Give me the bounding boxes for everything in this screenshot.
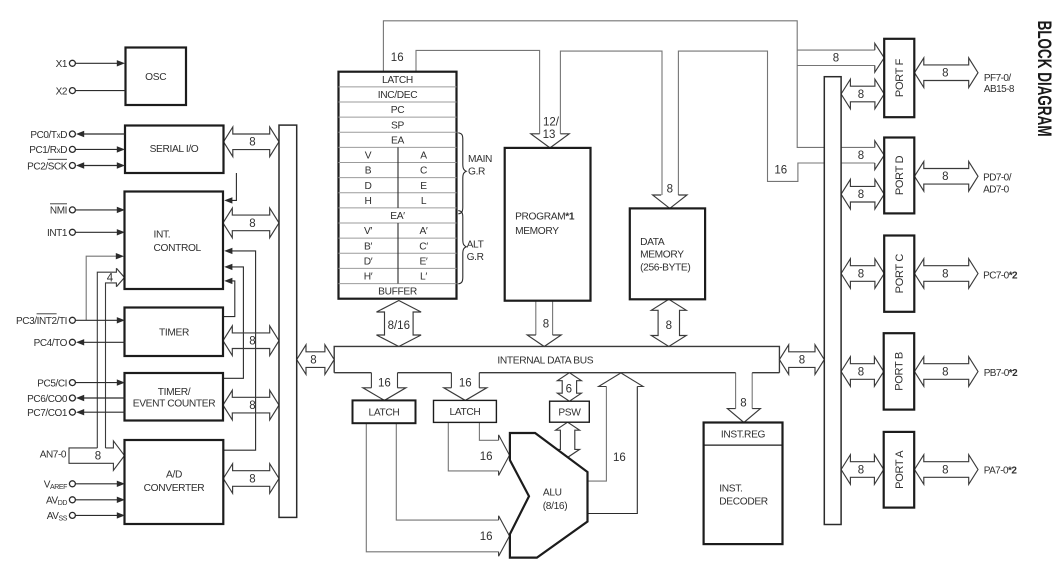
svg-text:EA: EA bbox=[391, 135, 404, 146]
svg-text:8: 8 bbox=[858, 89, 864, 101]
svg-text:INC/DEC: INC/DEC bbox=[378, 90, 417, 101]
svg-text:V′: V′ bbox=[364, 226, 372, 237]
svg-text:8: 8 bbox=[858, 464, 864, 476]
block DATA MEMORY bbox=[630, 208, 705, 299]
svg-text:OSC: OSC bbox=[145, 72, 166, 83]
block LATCH1 bbox=[353, 400, 416, 423]
arrow 16 internal data bus to LATCH1 bbox=[370, 373, 372, 388]
svg-text:PORT A: PORT A bbox=[894, 450, 906, 489]
block PORT A bbox=[884, 432, 915, 508]
pin arrow 8 PORT F to PF7-0/AB15-8 bbox=[915, 58, 979, 88]
bus arrow 6 internal data bus to PSW bbox=[557, 373, 581, 402]
bus arrow 8 right bar to PORT C bbox=[841, 259, 884, 289]
svg-text:PB7-0*2: PB7-0*2 bbox=[984, 368, 1018, 379]
svg-text:PROGRAM*1: PROGRAM*1 bbox=[515, 211, 575, 222]
block INTERNAL DATA BUS bbox=[334, 347, 779, 373]
svg-text:8: 8 bbox=[942, 268, 948, 280]
svg-text:PC3/INT2/TI: PC3/INT2/TI bbox=[16, 316, 67, 327]
svg-text:8: 8 bbox=[858, 268, 864, 280]
svg-text:PC6/CO0: PC6/CO0 bbox=[27, 394, 68, 405]
svg-text:8: 8 bbox=[249, 473, 255, 485]
svg-text:16: 16 bbox=[391, 52, 404, 64]
bus arrow 8/16 register file to internal data bus bbox=[377, 301, 422, 347]
svg-text:X2: X2 bbox=[56, 86, 68, 97]
svg-text:X1: X1 bbox=[56, 59, 68, 70]
svg-text:(256-BYTE): (256-BYTE) bbox=[640, 262, 690, 273]
bus arrow PSW to ALU bbox=[556, 422, 580, 457]
block LATCH2 bbox=[434, 400, 497, 422]
svg-text:E: E bbox=[420, 181, 427, 192]
overline SCK bbox=[48, 158, 67, 160]
svg-text:PC7/CO1: PC7/CO1 bbox=[27, 408, 68, 419]
register file alternate register divider bbox=[397, 223, 399, 284]
arrow head 8 into PORT F bbox=[875, 43, 884, 72]
svg-text:PORT B: PORT B bbox=[894, 352, 906, 391]
svg-text:8: 8 bbox=[310, 355, 316, 367]
svg-text:16: 16 bbox=[378, 377, 391, 389]
svg-text:C: C bbox=[420, 166, 427, 177]
svg-text:EVENT COUNTER: EVENT COUNTER bbox=[133, 399, 215, 410]
svg-text:PC7-0*2: PC7-0*2 bbox=[983, 270, 1018, 281]
svg-text:8: 8 bbox=[858, 366, 864, 378]
svg-text:DECODER: DECODER bbox=[719, 496, 768, 507]
svg-text:PSW: PSW bbox=[558, 407, 581, 418]
pin PC6/CO0 bbox=[69, 395, 75, 401]
pin PC7/CO1 bbox=[69, 409, 75, 415]
wire ALU upper output to internal data bus bbox=[588, 387, 607, 482]
arrow 8 program memory to internal data bus bbox=[535, 301, 537, 335]
svg-text:6: 6 bbox=[566, 384, 572, 396]
svg-text:CONTROL: CONTROL bbox=[154, 243, 202, 254]
svg-text:8: 8 bbox=[942, 171, 948, 183]
block AD CONVERTER bbox=[125, 440, 224, 524]
bus arrow 8 TIMER EVENT COUNTER to internal bus bar bbox=[223, 390, 279, 420]
arrow 8 AN7-0 into AD CONVERTER bbox=[69, 441, 125, 470]
svg-text:INT.: INT. bbox=[154, 230, 171, 241]
svg-text:8: 8 bbox=[942, 366, 948, 378]
wire 16-bit address from register file to ports bbox=[383, 21, 874, 148]
port bus bar right bbox=[824, 77, 841, 525]
svg-text:D: D bbox=[364, 181, 371, 192]
overline NMI bbox=[50, 203, 67, 205]
block INST REG and INST DECODER bbox=[704, 423, 783, 545]
wire LATCH2 to ALU upper input top bbox=[479, 422, 498, 440]
svg-text:MEMORY: MEMORY bbox=[515, 226, 559, 237]
pin arrow 8 PORT A to PA7-0 bbox=[915, 455, 979, 485]
svg-text:16: 16 bbox=[774, 164, 787, 176]
wire LATCH1 to ALU lower input top bbox=[396, 423, 498, 520]
arrow 16 LATCH1 into ALU bbox=[499, 516, 510, 557]
svg-text:8: 8 bbox=[799, 355, 805, 367]
svg-text:8: 8 bbox=[667, 183, 673, 195]
svg-text:MEMORY: MEMORY bbox=[640, 250, 684, 261]
svg-text:8: 8 bbox=[942, 464, 948, 476]
pin VAREF bbox=[69, 481, 75, 487]
arrow 12/13 into program memory bbox=[531, 134, 569, 148]
arrow 8 internal data bus to INST REG bbox=[735, 373, 737, 409]
svg-text:LATCH: LATCH bbox=[382, 75, 413, 86]
svg-text:MAIN: MAIN bbox=[468, 154, 492, 165]
svg-text:D′: D′ bbox=[364, 256, 373, 267]
pin PC5/CI bbox=[69, 380, 75, 386]
svg-text:13: 13 bbox=[543, 129, 556, 141]
bus arrow 8 TIMER to internal bus bar bbox=[223, 326, 279, 356]
svg-text:A: A bbox=[420, 151, 427, 162]
svg-text:8: 8 bbox=[740, 397, 746, 409]
block register file bbox=[339, 72, 457, 299]
svg-text:8/16: 8/16 bbox=[388, 320, 410, 332]
svg-text:8: 8 bbox=[858, 150, 864, 162]
bus arrow 8 SERIAL IO to internal bus bar bbox=[224, 127, 280, 157]
arrow 16 LATCH2 into ALU bbox=[499, 435, 510, 476]
svg-text:B: B bbox=[365, 166, 372, 177]
svg-text:PC1/RxD: PC1/RxD bbox=[29, 145, 67, 156]
block TIMER EVENT COUNTER bbox=[125, 373, 224, 421]
block PORT F bbox=[884, 39, 914, 117]
svg-text:L: L bbox=[421, 196, 427, 207]
svg-text:PC: PC bbox=[391, 105, 404, 116]
svg-text:AD7-0: AD7-0 bbox=[983, 185, 1010, 196]
pin X1 bbox=[69, 60, 75, 66]
wire TIMER interrupt to INT CONTROL bbox=[223, 281, 235, 317]
arrow 16 internal data bus to LATCH2 bbox=[450, 373, 452, 388]
bus arrow 8 INT CONTROL to internal bus bar bbox=[223, 208, 279, 238]
svg-text:A′: A′ bbox=[419, 226, 427, 237]
brace ALT G.R bbox=[458, 211, 466, 284]
wire AD converter interrupt to INT CONTROL bbox=[223, 251, 255, 450]
bus arrow 8 right bar to PORT F bbox=[841, 79, 884, 109]
svg-text:A/D: A/D bbox=[166, 470, 182, 481]
brace MAIN G.R bbox=[458, 133, 466, 214]
svg-text:8: 8 bbox=[249, 218, 255, 230]
svg-text:8: 8 bbox=[543, 318, 549, 330]
svg-text:H′: H′ bbox=[364, 272, 373, 283]
svg-text:PC4/TO: PC4/TO bbox=[34, 338, 68, 349]
pin PC4/TO bbox=[69, 339, 75, 345]
svg-text:PORT F: PORT F bbox=[894, 58, 906, 97]
svg-text:16: 16 bbox=[480, 531, 493, 543]
svg-text:PF7-0/: PF7-0/ bbox=[984, 73, 1011, 84]
block INT CONTROL bbox=[125, 192, 224, 290]
svg-text:EA′: EA′ bbox=[390, 211, 405, 222]
svg-text:LATCH: LATCH bbox=[369, 407, 400, 418]
pin INT1 bbox=[69, 229, 75, 235]
wire 12/13 right shaft to data memory arrow bbox=[560, 51, 662, 195]
wire SERIAL IO interrupt to INT CONTROL bbox=[229, 173, 236, 200]
svg-text:G.R: G.R bbox=[467, 252, 484, 263]
svg-text:(8/16): (8/16) bbox=[543, 501, 568, 512]
svg-text:TIMER/: TIMER/ bbox=[158, 387, 191, 398]
arrow 8 into data memory bbox=[653, 195, 687, 208]
svg-text:ALT: ALT bbox=[467, 240, 484, 251]
svg-text:PC2/SCK: PC2/SCK bbox=[27, 161, 68, 172]
svg-text:PD7-0/: PD7-0/ bbox=[983, 173, 1012, 184]
block PORT C bbox=[884, 236, 914, 312]
block TIMER bbox=[125, 308, 224, 357]
svg-text:TIMER: TIMER bbox=[159, 328, 189, 339]
bus arrow 8 right bar to PORT A bbox=[841, 455, 884, 485]
svg-text:E′: E′ bbox=[419, 256, 427, 267]
svg-text:8: 8 bbox=[95, 451, 101, 463]
svg-text:G.R: G.R bbox=[468, 167, 485, 178]
svg-text:INST.REG: INST.REG bbox=[721, 430, 766, 441]
svg-text:INT1: INT1 bbox=[47, 228, 68, 239]
svg-text:8: 8 bbox=[858, 189, 864, 201]
svg-text:NMI: NMI bbox=[50, 206, 67, 217]
arrow 4 interrupt lines into INT CONTROL bbox=[97, 268, 116, 448]
wire TIMER EVENT COUNTER interrupt to INT CONTROL bbox=[223, 267, 243, 378]
svg-text:8: 8 bbox=[249, 137, 255, 149]
bus arrow 8 data memory to internal data bus bbox=[651, 299, 686, 346]
bus arrow 8 right bar to PORT D bbox=[841, 179, 884, 209]
svg-text:C′: C′ bbox=[419, 241, 428, 252]
bus arrow 8 right bar to PORT B bbox=[841, 357, 884, 387]
pin NMI bbox=[69, 207, 75, 213]
block ALU bbox=[510, 433, 588, 558]
svg-text:V: V bbox=[365, 151, 372, 162]
pin X2 bbox=[69, 88, 75, 94]
wire PORT F input arrow bottom shaft bbox=[797, 65, 875, 67]
svg-text:DATA: DATA bbox=[640, 237, 665, 248]
pin PC1/RxD bbox=[69, 146, 75, 152]
block OSC bbox=[126, 48, 187, 106]
bus arrow 8 AD CONVERTER to internal bus bar bbox=[223, 464, 279, 494]
svg-text:8: 8 bbox=[942, 68, 948, 80]
block PORT D bbox=[884, 138, 914, 214]
pin AVDD bbox=[69, 497, 75, 503]
svg-text:PA7-0*2: PA7-0*2 bbox=[984, 466, 1018, 477]
wire LATCH2 to ALU upper input bottom bbox=[448, 422, 498, 471]
svg-text:LATCH: LATCH bbox=[450, 407, 481, 418]
svg-text:INST.: INST. bbox=[719, 483, 742, 494]
svg-text:PC0/TxD: PC0/TxD bbox=[30, 130, 67, 141]
block PORT B bbox=[884, 333, 915, 409]
svg-text:B′: B′ bbox=[364, 241, 372, 252]
svg-text:BLOCK DIAGRAM: BLOCK DIAGRAM bbox=[1033, 21, 1054, 137]
svg-text:L′: L′ bbox=[420, 272, 427, 283]
svg-text:16: 16 bbox=[480, 451, 493, 463]
arrow 16 ALU output to internal data bus bbox=[599, 373, 644, 387]
svg-text:ALU: ALU bbox=[543, 487, 562, 498]
svg-text:AN7-0: AN7-0 bbox=[40, 450, 67, 461]
register file row separators bbox=[339, 86, 457, 88]
wire PORT F input arrow top shaft bbox=[797, 49, 875, 51]
pin arrow 8 PORT C to PC7-0 bbox=[915, 259, 979, 289]
arrow head 8 into PORT D bbox=[875, 141, 884, 170]
block SERIAL IO bbox=[125, 126, 224, 174]
svg-text:PORT C: PORT C bbox=[894, 254, 906, 294]
svg-text:16: 16 bbox=[459, 377, 472, 389]
svg-text:SERIAL I/O: SERIAL I/O bbox=[150, 144, 199, 155]
wire ALU lower output to internal data bus bbox=[588, 387, 638, 514]
svg-text:PC5/CI: PC5/CI bbox=[37, 378, 67, 389]
pin arrow 8 PORT B to PB7-0 bbox=[915, 357, 979, 387]
svg-text:PORT D: PORT D bbox=[894, 155, 906, 195]
wire INT2 from TI pin to INT CONTROL bbox=[86, 256, 118, 320]
pin PC0/TxD bbox=[69, 131, 75, 137]
block PROGRAM MEMORY bbox=[505, 148, 591, 301]
svg-text:BUFFER: BUFFER bbox=[378, 287, 417, 298]
pin PC2/SCK bbox=[69, 163, 75, 169]
svg-text:INTERNAL DATA BUS: INTERNAL DATA BUS bbox=[497, 356, 593, 367]
svg-text:CONVERTER: CONVERTER bbox=[144, 483, 205, 494]
svg-text:H: H bbox=[364, 196, 371, 207]
pin arrow 8 PORT D to PD7-0/AD7-0 bbox=[915, 162, 979, 192]
svg-text:AB15-8: AB15-8 bbox=[984, 84, 1015, 95]
svg-text:16: 16 bbox=[613, 452, 626, 464]
overline INT2 bbox=[37, 313, 57, 315]
wire data memory arrow right shaft to PORT D input bbox=[678, 51, 874, 195]
bus arrow 8 internal data bus to right bar bbox=[779, 345, 824, 375]
svg-text:4: 4 bbox=[107, 272, 114, 284]
svg-text:8: 8 bbox=[833, 53, 839, 65]
svg-text:8: 8 bbox=[249, 336, 255, 348]
svg-text:8: 8 bbox=[666, 320, 672, 332]
wire register file to 12/13 program counter path bbox=[416, 50, 540, 133]
pin PC3/INT2/TI bbox=[69, 317, 75, 323]
bus arrow 8 left bar to internal data bus bbox=[297, 345, 335, 375]
svg-text:12/: 12/ bbox=[543, 116, 560, 128]
internal peripheral bus bar left bbox=[279, 125, 297, 517]
wire LATCH1 to ALU lower input bottom bbox=[366, 423, 498, 552]
svg-text:8: 8 bbox=[249, 400, 255, 412]
pin AVSS bbox=[69, 512, 75, 518]
register file main register divider bbox=[397, 147, 399, 208]
svg-text:SP: SP bbox=[391, 120, 404, 131]
block PSW bbox=[550, 401, 590, 422]
